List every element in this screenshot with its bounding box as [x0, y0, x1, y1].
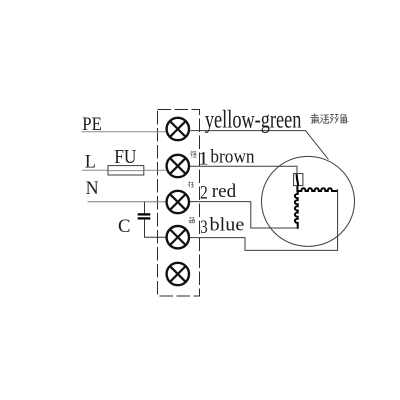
capacitor C plates [138, 213, 151, 215]
wire blue (terminal 4 to start winding) [190, 189, 338, 250]
label 蓝 (gray) [189, 217, 195, 223]
terminal 4 (blue) [167, 226, 189, 248]
thermal protector [294, 174, 303, 186]
wire junction into windings [296, 185, 298, 191]
svg-text:L: L [85, 152, 96, 173]
svg-text:brown: brown [210, 146, 255, 167]
start winding (horizontal coil) [297, 188, 337, 191]
svg-text:blue: blue [210, 215, 245, 236]
wire L [82, 169, 166, 171]
svg-text:PE: PE [82, 114, 102, 135]
fuse FU [108, 166, 144, 175]
wire N [88, 201, 166, 203]
svg-text:1: 1 [198, 148, 209, 169]
terminal 5 (spare) [167, 263, 189, 285]
terminal 2 (L/brown) [167, 155, 189, 177]
main winding (vertical coil) [295, 191, 298, 229]
wire red (terminal 2 to main winding) [189, 202, 297, 228]
svg-text:FU: FU [114, 146, 137, 168]
svg-text:N: N [86, 178, 99, 199]
wire capacitor to terminal 4 [145, 220, 166, 238]
svg-text:red: red [212, 181, 237, 202]
wire brown (terminal 1 to motor) [190, 166, 297, 174]
svg-text:C: C [118, 216, 131, 237]
label 红 (gray) [188, 181, 194, 187]
terminal 1 (PE) [167, 118, 189, 140]
terminal block outline (dashed box) [158, 110, 200, 297]
svg-text:3: 3 [200, 217, 207, 238]
wire PE [81, 131, 166, 133]
capacitor C branch wire [144, 202, 146, 213]
svg-text:yellow-green: yellow-green [205, 107, 302, 134]
svg-text:2: 2 [200, 182, 208, 203]
terminal 3 (N/red) [167, 191, 189, 213]
label 黄绿双色 (gray) [311, 113, 348, 123]
wire yellow-green (to motor frame) [191, 131, 329, 160]
label 棕 (gray) [190, 151, 196, 158]
motor frame circle [262, 156, 355, 246]
